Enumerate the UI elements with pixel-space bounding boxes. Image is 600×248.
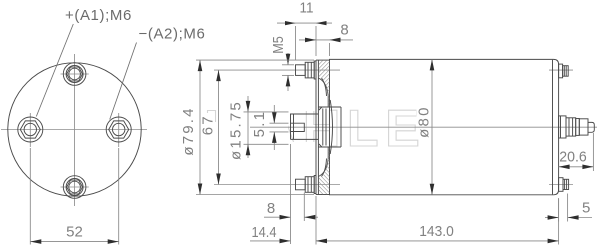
flange hatch bottom: [319, 148, 329, 194]
leader A1: [36, 24, 73, 117]
mounting stud bottom (left view): [61, 176, 89, 199]
end bolt top right (side view): [559, 64, 569, 78]
svg-text:−(A2);M6: −(A2);M6: [139, 26, 206, 43]
svg-text:ø15.75: ø15.75: [227, 100, 244, 160]
svg-text:8: 8: [267, 200, 275, 217]
end stud centerline bottom right: [549, 184, 573, 186]
end bolt centerline top right: [549, 69, 573, 71]
end stud bottom right (side view): [559, 178, 569, 192]
housing circle: [8, 63, 141, 196]
can left end dome arc: [330, 100, 332, 154]
flange stud bottom (side view): [296, 176, 317, 194]
push rod: [291, 107, 327, 147]
axis centerline: [250, 126, 597, 128]
leader A2: [110, 43, 137, 120]
svg-text:11: 11: [300, 0, 314, 17]
flange hatch top: [319, 60, 329, 106]
svg-text:143.0: 143.0: [419, 223, 454, 240]
svg-text:+(A1);M6: +(A1);M6: [65, 7, 132, 24]
centerline horizontal left view: [1, 129, 147, 131]
svg-text:5.1: 5.1: [251, 110, 268, 137]
main terminal (side view, on axis): [559, 116, 595, 138]
flange fillet curves top: [318, 78, 328, 107]
svg-text:ø79.4: ø79.4: [180, 106, 197, 155]
end cap crimp line: [552, 60, 554, 195]
svg-text:8: 8: [340, 22, 348, 39]
hub boss: [318, 106, 341, 108]
flange stud top (side view): [296, 61, 317, 79]
dim 52: [30, 241, 118, 243]
flange disc: [315, 60, 317, 194]
dim 52 extension lines: [29, 148, 31, 245]
svg-text:14.4: 14.4: [252, 224, 277, 241]
body (main cylinder): [330, 59, 559, 194]
stud centerline top: [214, 69, 340, 71]
terminal A1 left (left view): [18, 113, 43, 147]
svg-text:5: 5: [582, 200, 590, 217]
svg-text:52: 52: [66, 224, 83, 241]
mounting stud top (left view): [61, 63, 89, 86]
svg-text:20.6: 20.6: [559, 149, 587, 166]
label background masks: [181, 98, 588, 163]
terminal A2 right (left view): [106, 113, 131, 147]
svg-text:M5: M5: [270, 36, 287, 54]
stud centerline bottom: [214, 184, 340, 186]
svg-text:67: 67: [200, 114, 217, 135]
flange fillet curves bottom: [318, 147, 328, 177]
svg-text:ø80: ø80: [415, 105, 432, 137]
centerline vertical left view: [74, 54, 76, 206]
watermark fragment: [208, 111, 216, 123]
